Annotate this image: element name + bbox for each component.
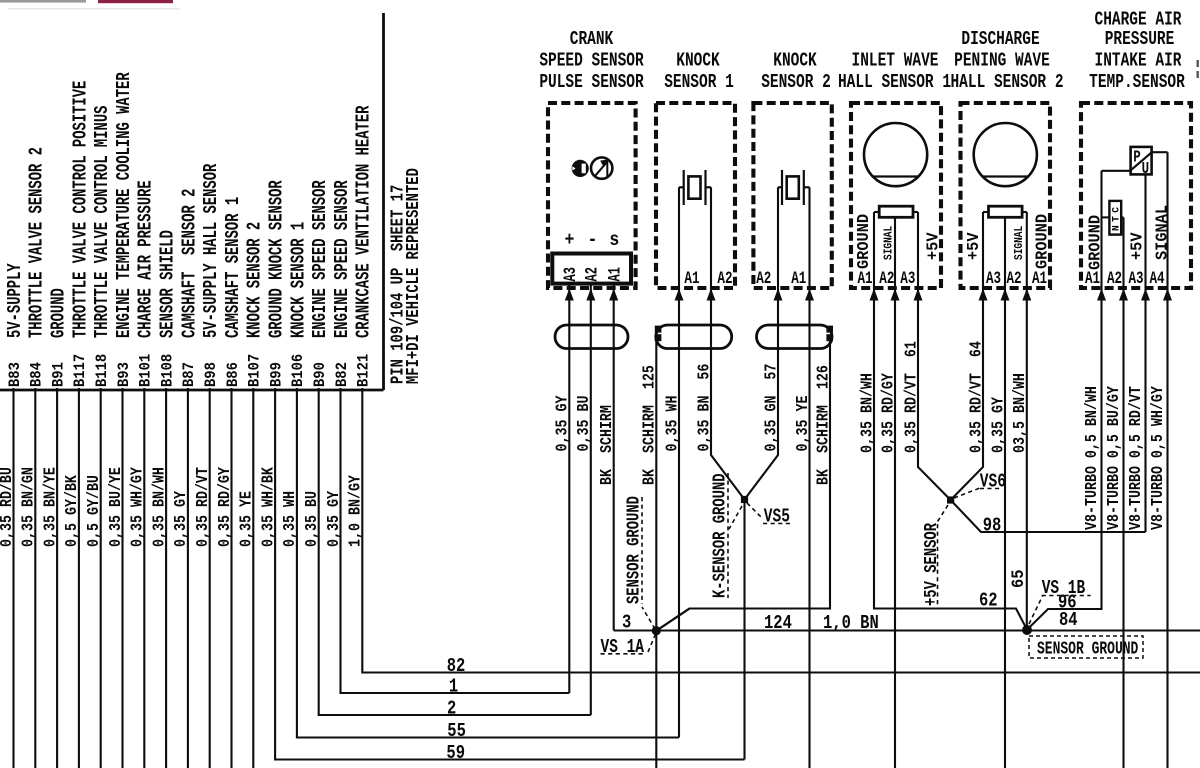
- arrow temp A2: [1119, 289, 1128, 301]
- junction VS 1B: [1022, 625, 1032, 635]
- wire B90 net 2 0,35 BU: [319, 388, 591, 715]
- arrow temp A3: [1141, 289, 1150, 301]
- wire hall2 A2 signal: [1004, 217, 1006, 768]
- svg-text:0,5 GY/BU: 0,5 GY/BU: [85, 475, 104, 547]
- arrow hall1 A2: [891, 289, 900, 301]
- svg-text:B117: B117: [71, 354, 89, 387]
- svg-text:+5V: +5V: [924, 232, 943, 260]
- arrow knock2 A2: [774, 289, 783, 301]
- svg-text:0,35 YE: 0,35 YE: [237, 491, 256, 547]
- PIN-ARROWS: [565, 289, 1172, 301]
- svg-text:MFI+DI VEHICLE REPRESENTED: MFI+DI VEHICLE REPRESENTED: [403, 168, 423, 384]
- svg-text:CAMSHAFT SENSOR 2: CAMSHAFT SENSOR 2: [179, 189, 201, 338]
- svg-text:0,35 RD/GY: 0,35 RD/GY: [216, 467, 235, 547]
- SENSOR-BOXES: [548, 103, 1191, 349]
- arrow temp A4: [1163, 289, 1172, 301]
- svg-text:KNOCK SENSOR 2: KNOCK SENSOR 2: [245, 222, 267, 338]
- dotted underline VS 1A: [601, 653, 645, 655]
- hall sensor 2 resistor: [989, 206, 1023, 217]
- svg-text:HALL SENSOR 1: HALL SENSOR 1: [838, 72, 951, 94]
- junction VS5: [741, 496, 748, 503]
- arrow temp A1: [1097, 289, 1106, 301]
- wire hall2 A1 ground net 65: [1026, 212, 1028, 631]
- wire knock1 shield BK SCHIRM 125: [655, 337, 657, 631]
- svg-text:SENSOR 2: SENSOR 2: [761, 72, 831, 94]
- arrow knock1 A1: [675, 289, 684, 301]
- wire B86 0,35 RD/GY: [230, 388, 232, 768]
- svg-text:B91: B91: [50, 362, 68, 387]
- svg-text:1: 1: [449, 676, 458, 698]
- svg-text:5V-SUPPLY: 5V-SUPPLY: [5, 263, 27, 338]
- svg-text:5V-SUPPLY HALL SENSOR: 5V-SUPPLY HALL SENSOR: [201, 163, 223, 338]
- wire knock2 A1 0,35 YE: [808, 187, 810, 768]
- svg-text:+5V: +5V: [964, 232, 983, 260]
- svg-text:0,35 GN 57: 0,35 GN 57: [762, 364, 781, 452]
- LEADERS: [601, 473, 1144, 658]
- svg-text:V8-TURBO 0,5 WH/GY: V8-TURBO 0,5 WH/GY: [1149, 386, 1168, 530]
- svg-text:0,35 YE: 0,35 YE: [794, 396, 813, 452]
- leader VS1A to rotated sensor ground label: [642, 607, 655, 629]
- wire B101 0,35 WH/GY: [143, 388, 145, 768]
- svg-text:CHARGE AIR: CHARGE AIR: [1095, 10, 1182, 32]
- sensor box B6: charge air pressure / intake air temp sensor outline: [1081, 103, 1191, 288]
- crank sensor inductive symbol: [572, 160, 589, 177]
- dashed underline SENSOR GROUND rotated: [641, 497, 643, 604]
- svg-text:ENGINE SPEED SENSOR: ENGINE SPEED SENSOR: [310, 180, 332, 338]
- leader VS5 to K-sensor ground label: [729, 506, 742, 529]
- svg-text:GROUND: GROUND: [854, 214, 873, 269]
- dotted underline VS6: [980, 488, 1002, 490]
- svg-text:CRANKCASE VENTILATION HEATER: CRANKCASE VENTILATION HEATER: [354, 105, 376, 338]
- wire B118 0,5 GY/BU: [100, 388, 102, 768]
- junction VS 1A: [652, 626, 661, 635]
- connector oval crank: [555, 325, 628, 349]
- svg-text:0,35 RD/VT: 0,35 RD/VT: [194, 467, 213, 547]
- svg-text:1,0 BN/GY: 1,0 BN/GY: [346, 475, 365, 547]
- svg-text:HALL SENSOR 2: HALL SENSOR 2: [950, 72, 1063, 94]
- svg-text:U: U: [1142, 161, 1150, 179]
- svg-text:0,35 BN/GN: 0,35 BN/GN: [19, 467, 38, 547]
- crank sensor trigger-wheel symbol: [591, 157, 612, 178]
- svg-text:BK SCHIRM 125: BK SCHIRM 125: [640, 365, 659, 485]
- wire temp A3 +5V 0,5 RD/VT: [1144, 174, 1146, 532]
- wire B106 net 55 0,35 WH: [297, 388, 679, 738]
- hall sensor 1 resistor: [879, 206, 913, 217]
- wire sensor ground bus net 124 / 1,0 BN / 84: [614, 629, 1200, 631]
- wire VS1A branch to knock2 shield: [656, 609, 689, 631]
- svg-text:BK SCHIRM 126: BK SCHIRM 126: [814, 365, 833, 485]
- wire hall1 A3 +5V: [918, 212, 951, 500]
- wire temp A4 signal 0,5 WH/GY: [1166, 152, 1168, 768]
- dotted underline VS5: [763, 523, 790, 525]
- LEFT-CONNECTOR: [0, 13, 384, 390]
- knock sensor 2 piezo symbol: [778, 170, 810, 205]
- svg-text:GROUND: GROUND: [1086, 215, 1105, 270]
- wire knock1 A2 0,35 BN 56: [711, 187, 745, 499]
- wire B99 net 59 0,35 WH/BK: [275, 388, 744, 760]
- svg-text:+5V: +5V: [1128, 232, 1147, 260]
- svg-text:+5V SENSOR: +5V SENSOR: [921, 523, 941, 606]
- svg-text:A1: A1: [684, 268, 699, 289]
- svg-text:B86: B86: [224, 362, 242, 387]
- svg-text:1,0 BN: 1,0 BN: [823, 612, 879, 634]
- svg-text:SPEED SENSOR: SPEED SENSOR: [539, 51, 644, 73]
- crank sensor pin box: [552, 254, 631, 284]
- svg-text:A2: A2: [1007, 268, 1022, 289]
- sensor box B5: discharge hall sensor 2 outline: [961, 103, 1051, 288]
- svg-text:0,5 GY/BK: 0,5 GY/BK: [63, 475, 82, 547]
- svg-text:VS 1A: VS 1A: [601, 637, 645, 659]
- decor dark red bar: [98, 0, 173, 3]
- svg-text:A1: A1: [791, 268, 806, 289]
- svg-text:A1: A1: [1085, 268, 1100, 289]
- arrow hall1 A3: [914, 289, 923, 301]
- svg-text:B99: B99: [268, 362, 286, 387]
- wire B83 0,35 RD/BU: [12, 388, 14, 768]
- svg-text:s: s: [609, 230, 619, 252]
- wire B108 0,35 BN/WH: [165, 388, 167, 768]
- arrow crank A2: [586, 289, 595, 301]
- knock sensor 1 piezo symbol: [679, 170, 711, 205]
- dashed underline K-SENSOR GROUND: [727, 473, 729, 598]
- arrow knock2 A1: [805, 289, 814, 301]
- connector oval knock 1: [656, 325, 732, 349]
- wire B93 0,35 BU/YE: [121, 388, 123, 768]
- dotted underline VS 1B: [1042, 595, 1091, 597]
- hall sensor 2 resistor stubs: [983, 211, 1027, 213]
- svg-text:B82: B82: [333, 362, 351, 387]
- leader VS1B to VS 1B label: [1029, 595, 1043, 624]
- hall sensor 2 circle symbol: [974, 123, 1037, 186]
- decor gray bar top-left: [0, 0, 86, 3]
- leader VS6 to +5V sensor label: [936, 505, 948, 524]
- svg-text:SENSOR 1: SENSOR 1: [664, 72, 734, 94]
- svg-text:ENGINE TEMPERATURE COOLING WAT: ENGINE TEMPERATURE COOLING WATER: [114, 72, 136, 338]
- svg-text:0,35 BU: 0,35 BU: [575, 396, 594, 452]
- svg-text:VS6: VS6: [980, 472, 1006, 494]
- svg-text:A2: A2: [756, 268, 771, 289]
- svg-text:0,35 BU: 0,35 BU: [303, 491, 322, 547]
- svg-text:B101: B101: [137, 354, 155, 387]
- leader VS6 to VS6 label: [954, 488, 980, 498]
- sensor box B4: inlet hall sensor 1 outline: [851, 103, 941, 288]
- wire hall2 A3 +5V: [951, 212, 983, 500]
- svg-text:KNOCK: KNOCK: [676, 51, 720, 73]
- svg-text:SENSOR GROUND: SENSOR GROUND: [624, 496, 644, 604]
- svg-text:THROTTLE VALVE CONTROL MINUS: THROTTLE VALVE CONTROL MINUS: [92, 106, 114, 338]
- svg-text:A3: A3: [900, 268, 915, 289]
- svg-text:SENSOR GROUND: SENSOR GROUND: [1037, 638, 1138, 659]
- svg-text:0,35 BN/WH: 0,35 BN/WH: [150, 467, 169, 547]
- dotted box SENSOR GROUND: [1029, 636, 1143, 658]
- arrow hall2 A3: [979, 289, 988, 301]
- wire +5V sensor net 98 VS6 to temp A3: [951, 500, 1146, 532]
- svg-text:62: 62: [979, 590, 998, 612]
- wire B84 0,35 BN/GN: [34, 388, 36, 768]
- ECU connector right border: [382, 13, 385, 390]
- wire B107 0,35 YE: [252, 388, 254, 768]
- NTC stubs: [1102, 216, 1124, 218]
- leader VS5 to VS5 label: [747, 503, 763, 519]
- wire hall1 A1 ground net 62: [874, 212, 1027, 630]
- svg-text:0,35 GY: 0,35 GY: [325, 491, 344, 547]
- svg-text:B98: B98: [202, 362, 220, 387]
- svg-text:GROUND: GROUND: [49, 288, 71, 338]
- sensor box B3: knock sensor 2 outline: [753, 103, 831, 288]
- svg-text:2: 2: [447, 698, 456, 720]
- wire crank A3 0,35 GY net 1: [568, 284, 570, 693]
- svg-text:CRANK: CRANK: [570, 29, 614, 51]
- svg-text:INTAKE AIR: INTAKE AIR: [1095, 51, 1182, 73]
- decor faint line: [8, 8, 180, 10]
- svg-text:A3: A3: [562, 267, 581, 281]
- svg-text:A1: A1: [1032, 268, 1047, 289]
- svg-text:124: 124: [764, 612, 792, 634]
- arrow hall2 A1: [1022, 289, 1031, 301]
- wire B117 0,5 GY/BK: [78, 388, 80, 768]
- wire hall1 A2 signal: [894, 217, 896, 768]
- svg-text:GROUND KNOCK SENSOR: GROUND KNOCK SENSOR: [267, 180, 289, 338]
- svg-text:0,35 BN/YE: 0,35 BN/YE: [41, 467, 60, 547]
- svg-text:V8-TURBO 0,5 RD/VT: V8-TURBO 0,5 RD/VT: [1127, 386, 1146, 530]
- sensor box B2: knock sensor 1 outline: [656, 103, 735, 288]
- svg-text:CAMSHAFT SENSOR 1: CAMSHAFT SENSOR 1: [223, 197, 245, 338]
- svg-text:PULSE SENSOR: PULSE SENSOR: [539, 72, 644, 94]
- svg-text:ENGINE SPEED SENSOR: ENGINE SPEED SENSOR: [332, 180, 354, 338]
- svg-text:B90: B90: [311, 362, 329, 387]
- wire B121 net 82 1,0 BN/GY: [362, 388, 1200, 673]
- svg-text:0,35 GY: 0,35 GY: [553, 396, 572, 452]
- svg-text:98: 98: [983, 515, 1002, 537]
- svg-text:0,35 WH/BK: 0,35 WH/BK: [259, 467, 278, 547]
- svg-text:VS 1B: VS 1B: [1042, 578, 1086, 600]
- MID-WIRING: [569, 152, 1200, 768]
- svg-text:THROTTLE VALVE SENSOR 2: THROTTLE VALVE SENSOR 2: [27, 147, 49, 338]
- svg-text:03,5 BN/WH: 03,5 BN/WH: [1011, 373, 1030, 453]
- svg-text:0,35 WH/GY: 0,35 WH/GY: [128, 467, 147, 547]
- svg-text:SIGNAL: SIGNAL: [1013, 226, 1026, 260]
- svg-text:TEMP.SENSOR: TEMP.SENSOR: [1089, 72, 1185, 94]
- svg-text:55: 55: [447, 720, 466, 742]
- svg-text:A2: A2: [717, 268, 732, 289]
- wire knock1 A1 0,35 WH net 55: [678, 187, 680, 737]
- svg-text:B93: B93: [115, 362, 133, 387]
- svg-text:3: 3: [622, 612, 631, 634]
- svg-text:B107: B107: [246, 354, 264, 387]
- knock 1 shield clamp blobs: [655, 326, 662, 342]
- svg-text:P: P: [1133, 149, 1141, 167]
- junction VS6: [947, 496, 954, 503]
- svg-text:B121: B121: [355, 354, 373, 387]
- arrow hall1 A1: [870, 289, 879, 301]
- wire B98 0,35 RD/VT: [209, 388, 211, 768]
- wire B82 net 1 0,35 GY: [341, 388, 570, 693]
- svg-text:K-SENSOR GROUND: K-SENSOR GROUND: [710, 473, 730, 598]
- connector oval knock 2: [757, 325, 833, 349]
- svg-text:-: -: [587, 230, 597, 252]
- svg-text:0,35 RD/BU: 0,35 RD/BU: [0, 467, 16, 547]
- svg-text:V8-TURBO 0,5 BN/WH: V8-TURBO 0,5 BN/WH: [1083, 386, 1102, 530]
- svg-text:65: 65: [1009, 569, 1029, 588]
- svg-text:+: +: [564, 230, 574, 252]
- svg-text:0,35 BN/WH: 0,35 BN/WH: [858, 373, 877, 453]
- arrow knock1 A2: [707, 289, 716, 301]
- temp sensor ground link: [1102, 170, 1131, 172]
- wire temp A1 ground net 96: [1027, 171, 1102, 630]
- svg-text:SIGNAL: SIGNAL: [883, 226, 896, 260]
- svg-text:V8-TURBO 0,5 BU/GY: V8-TURBO 0,5 BU/GY: [1105, 386, 1124, 530]
- svg-text:0,35 GY: 0,35 GY: [172, 491, 191, 547]
- svg-text:0,35 WH: 0,35 WH: [281, 491, 300, 547]
- hall sensor 1 circle symbol: [864, 123, 927, 186]
- svg-text:59: 59: [446, 742, 465, 764]
- svg-text:DISCHARGE: DISCHARGE: [961, 29, 1039, 51]
- NTC thermistor box: [1109, 201, 1121, 235]
- wire temp A2 NTC 0,5 BU/GY: [1122, 217, 1124, 768]
- wire crank A2 0,35 BU net 2: [590, 284, 592, 715]
- arrow crank A3: [565, 289, 574, 301]
- svg-text:KNOCK SENSOR 1: KNOCK SENSOR 1: [288, 222, 310, 338]
- svg-text:VS5: VS5: [764, 507, 790, 529]
- temp sensor signal link: [1152, 151, 1168, 153]
- svg-text:0,35 BN 56: 0,35 BN 56: [695, 364, 714, 452]
- svg-text:A4: A4: [1150, 268, 1165, 289]
- svg-text:0,35 BU/YE: 0,35 BU/YE: [107, 467, 126, 547]
- wire knock2 shield BK SCHIRM 126: [656, 337, 830, 631]
- svg-text:0,35 RD/VT 64: 0,35 RD/VT 64: [967, 341, 986, 453]
- svg-text:PRESSURE: PRESSURE: [1105, 29, 1175, 51]
- sensor box B1: crank speed sensor outline: [548, 103, 636, 288]
- svg-text:SIGNAL: SIGNAL: [1153, 205, 1172, 260]
- svg-text:KNOCK: KNOCK: [773, 51, 817, 73]
- svg-text:B118: B118: [93, 354, 111, 387]
- svg-text:A2: A2: [879, 268, 894, 289]
- wire crank A1 shield BK SCHIRM: [613, 284, 615, 631]
- svg-text:NTC: NTC: [1111, 204, 1122, 231]
- wire B91 0,35 BN/YE: [56, 388, 58, 768]
- svg-text:GROUND: GROUND: [1033, 214, 1052, 269]
- svg-text:BK SCHIRM: BK SCHIRM: [598, 405, 617, 485]
- pressure transducer P/U box: [1131, 147, 1152, 175]
- svg-text:A3: A3: [1129, 268, 1144, 289]
- svg-text:CHARGE AIR PRESSURE: CHARGE AIR PRESSURE: [136, 180, 158, 338]
- svg-text:B108: B108: [159, 354, 177, 387]
- svg-text:0,35 RD/GY: 0,35 RD/GY: [879, 373, 898, 453]
- svg-text:B106: B106: [289, 354, 307, 387]
- wire VS1A sensor ground down: [655, 631, 657, 768]
- svg-text:0,35 WH: 0,35 WH: [663, 396, 682, 452]
- svg-text:PENING WAVE: PENING WAVE: [954, 51, 1050, 73]
- svg-text:B87: B87: [180, 362, 198, 387]
- svg-text:B83: B83: [6, 362, 24, 387]
- svg-text:A1: A1: [607, 267, 626, 281]
- WIRES-LEFT: [14, 388, 1200, 768]
- dashed underline +5V SENSOR: [937, 524, 939, 606]
- svg-text:0,35 GY: 0,35 GY: [989, 397, 1008, 453]
- svg-text:A3: A3: [986, 268, 1001, 289]
- arrow crank A1: [609, 289, 618, 301]
- svg-text:INLET WAVE: INLET WAVE: [852, 51, 939, 73]
- svg-text:82: 82: [447, 655, 466, 677]
- svg-text:A2: A2: [1107, 268, 1122, 289]
- arrow hall2 A2: [1001, 289, 1010, 301]
- knock 2 shield clamp blobs: [826, 326, 833, 342]
- svg-text:B84: B84: [28, 362, 46, 387]
- svg-text:THROTTLE VALVE CONTROL POSITIV: THROTTLE VALVE CONTROL POSITIVE: [70, 81, 92, 338]
- decor right-edge text fragment: [1197, 60, 1199, 67]
- svg-text:A1: A1: [858, 268, 873, 289]
- wire K-sensor ground VS5 to net 59: [743, 500, 745, 760]
- wire knock2 A2 0,35 GN 57: [745, 187, 779, 499]
- svg-text:SENSOR SHIELD: SENSOR SHIELD: [158, 230, 180, 338]
- leader VS1A to VS 1A label: [648, 633, 656, 652]
- svg-text:A2: A2: [584, 267, 603, 281]
- svg-text:0,35 RD/VT 61: 0,35 RD/VT 61: [902, 341, 921, 453]
- ECU connector bottom border: [0, 389, 384, 392]
- wire B87 0,35 GY: [187, 388, 189, 768]
- hall sensor 1 resistor stubs: [874, 211, 918, 213]
- SCAN-DECOR: [0, 0, 1199, 78]
